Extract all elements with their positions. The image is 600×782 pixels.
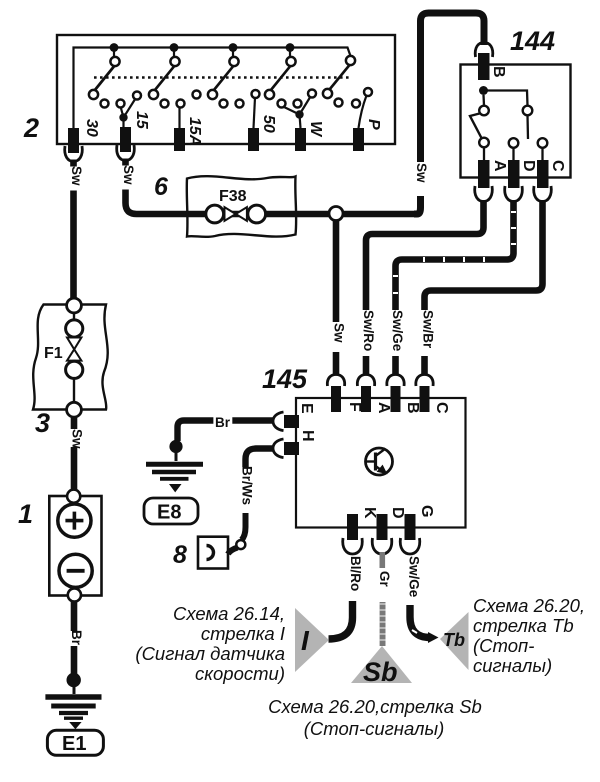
svg-text:I: I: [301, 625, 310, 656]
svg-text:скорости): скорости): [195, 663, 285, 684]
ignition switch box 2: [57, 35, 395, 144]
terminal C stub 144: [537, 160, 549, 188]
wire riser top loop to 144 B: [421, 13, 485, 162]
wire battery down: [71, 601, 78, 631]
relay box 144: [461, 65, 571, 178]
svg-text:Sw/Ro: Sw/Ro: [361, 310, 376, 351]
svg-text:144: 144: [510, 26, 555, 56]
transistor symbol in 145: [366, 448, 393, 475]
svg-text:30: 30: [83, 119, 100, 137]
svg-text:A: A: [491, 160, 508, 172]
144 switch lever: [470, 114, 482, 140]
svg-text:F1: F1: [44, 345, 63, 362]
svg-text:P: P: [365, 119, 382, 130]
connector above 145F: [327, 375, 344, 387]
grey wire segment upper: [380, 552, 386, 568]
svg-text:A: A: [375, 402, 392, 414]
svg-text:(Стоп-: (Стоп-: [473, 635, 534, 656]
wire node to connector 8: [228, 548, 238, 555]
connector above 145A: [357, 375, 374, 387]
svg-text:Sw: Sw: [69, 166, 84, 186]
connector arc in box 8: [207, 546, 214, 560]
wire dot to ground: [73, 680, 76, 694]
svg-text:E1: E1: [62, 733, 86, 755]
ground box E8: [144, 498, 198, 524]
svg-text:Sw/Ge: Sw/Ge: [390, 310, 405, 352]
ground junction dot E8: [169, 440, 182, 453]
switch section 4: [265, 50, 316, 108]
connector above 145C: [416, 375, 433, 387]
svg-text:145: 145: [262, 364, 308, 394]
connector under 145 K: [343, 538, 363, 554]
connector under 145 G: [400, 538, 420, 554]
terminal H stub 145: [284, 442, 299, 455]
144 contact to stub lines: [484, 148, 543, 161]
wire junction to 145F: [333, 220, 340, 322]
svg-text:1: 1: [18, 499, 33, 529]
wire stub above 145A: [363, 356, 370, 374]
svg-text:Sb: Sb: [363, 657, 398, 687]
svg-text:50: 50: [260, 115, 277, 133]
white dash on Sw/Ge bottom: [412, 630, 417, 633]
svg-text:сигналы): сигналы): [473, 655, 552, 676]
bus wire inside switch: [74, 48, 351, 129]
terminal 15A connection: [178, 107, 180, 128]
terminal P stub: [353, 128, 364, 151]
terminal 15 stub: [120, 127, 131, 152]
wire 144D to 145B: [396, 200, 514, 310]
wire dot to ground E8: [175, 447, 178, 461]
wire stub above 145C: [421, 356, 428, 374]
terminal F stub 145: [331, 386, 341, 412]
svg-text:Sw/Ge: Sw/Ge: [407, 556, 422, 598]
wire stub above 145F: [333, 352, 340, 374]
terminal G stub 145: [405, 514, 416, 540]
svg-text:D: D: [389, 507, 406, 519]
svg-text:Схема 26.20,стрелка Sb: Схема 26.20,стрелка Sb: [268, 696, 482, 717]
wire 15 to fuse F38: [126, 159, 415, 215]
svg-text:Схема 26.20,: Схема 26.20,: [473, 595, 585, 616]
text block schema 26.14: [135, 603, 285, 684]
fuse F1 wavy box 3: [33, 305, 108, 410]
connector under terminal 30: [65, 146, 83, 162]
terminal D stub 145: [377, 514, 388, 540]
svg-text:15: 15: [133, 111, 150, 130]
svg-text:(Сигнал датчика: (Сигнал датчика: [135, 643, 285, 664]
svg-text:C: C: [433, 402, 450, 414]
terminal W stub: [295, 128, 306, 151]
wire 144A to 145A: [366, 200, 484, 310]
arrowhead to Tb: [428, 632, 439, 643]
junction node on F38 output: [329, 207, 343, 221]
svg-text:2: 2: [23, 113, 39, 143]
svg-text:K: K: [361, 507, 378, 519]
terminal 15 connection: [121, 99, 136, 129]
ground box E1: [47, 730, 103, 755]
battery top node: [67, 490, 80, 503]
svg-text:F: F: [346, 402, 363, 412]
wire F1 to battery: [71, 447, 78, 491]
text block schema 26.20 Tb: [473, 595, 585, 676]
terminal 50 connection: [254, 98, 256, 129]
terminal 15A stub: [174, 128, 185, 151]
ground symbol E1: [45, 697, 101, 729]
switch section 5: [323, 56, 372, 108]
ground junction dot E1: [67, 673, 81, 687]
terminal A stub 145: [361, 386, 371, 412]
wire BrWs from 145H: [246, 449, 275, 468]
connector box 8: [198, 537, 228, 569]
connector under terminal 15: [117, 145, 135, 161]
white dashes on Sw/Ge wire: [393, 212, 516, 293]
stub below F1: [71, 417, 78, 429]
wire Br from 145E to ground E8: [178, 421, 275, 442]
F1 fuse symbol: [66, 313, 83, 403]
wire BrWs lower: [242, 513, 246, 540]
switch section 3: [208, 50, 260, 108]
svg-text:стрелка I: стрелка I: [201, 623, 285, 644]
F1 top node: [67, 298, 82, 313]
svg-text:H: H: [299, 430, 316, 442]
switch section 2: [149, 50, 201, 108]
wire 30 to fuse F1: [70, 160, 77, 306]
terminal 50 stub: [248, 128, 259, 151]
wire riser to 144 B upper part: [414, 196, 421, 214]
connector above 145B: [387, 375, 404, 387]
terminal K stub 145: [347, 514, 358, 540]
svg-text:E8: E8: [157, 502, 181, 524]
svg-text:Sw: Sw: [121, 165, 136, 185]
connector under 144 D: [505, 186, 523, 202]
control unit box 145: [296, 398, 466, 528]
wire G to arrow Tb: [410, 605, 430, 638]
svg-text:B: B: [490, 66, 507, 78]
svg-text:D: D: [520, 160, 537, 172]
svg-text:B: B: [404, 402, 421, 414]
connector at 144 B: [475, 43, 493, 58]
svg-text:E: E: [298, 403, 315, 414]
connector under 145 D: [372, 538, 392, 554]
svg-text:Sw: Sw: [414, 163, 429, 183]
terminal D stub 144: [508, 160, 520, 188]
battery minus terminal: [59, 554, 92, 587]
terminal E stub 145: [284, 415, 299, 428]
arrow triangle Sb: [351, 646, 412, 683]
bus junction dots: [110, 43, 295, 52]
144 internal junction dot: [479, 86, 488, 95]
svg-text:Gr: Gr: [377, 571, 392, 588]
svg-text:W: W: [307, 121, 324, 138]
switch section 1: [89, 50, 141, 108]
svg-text:Sw/Br: Sw/Br: [421, 310, 436, 349]
svg-text:Tb: Tb: [443, 630, 465, 650]
connector under 144 C: [534, 186, 552, 202]
text block schema 26.20 Sb: [268, 696, 482, 739]
F38 fuse symbol: [225, 207, 247, 221]
terminal B stub 144: [478, 53, 490, 80]
F1 bottom node: [67, 402, 82, 417]
dotted line inside switch: [94, 76, 352, 78]
arrow triangle Tb: [440, 612, 469, 670]
arrow triangle I: [295, 608, 329, 672]
connector under 144 A: [475, 186, 493, 202]
svg-text:Bl/Ro: Bl/Ro: [348, 556, 363, 591]
svg-text:6: 6: [154, 173, 169, 201]
svg-text:Sw: Sw: [70, 429, 85, 449]
ground symbol E8: [146, 464, 203, 491]
wire stub above 145B: [392, 356, 399, 374]
terminal P connection: [359, 96, 367, 129]
terminal A stub 144: [478, 160, 490, 188]
svg-text:стрелка Tb: стрелка Tb: [473, 615, 574, 636]
wire K to arrow I: [329, 601, 353, 639]
svg-text:F38: F38: [219, 188, 247, 205]
battery 1 box: [49, 496, 101, 596]
svg-text:15A: 15A: [186, 117, 203, 146]
battery bottom node: [68, 588, 81, 601]
svg-text:C: C: [549, 160, 566, 172]
svg-text:8: 8: [173, 541, 187, 569]
node circle at 8: [236, 540, 245, 549]
grey wire stripes: [380, 604, 386, 640]
terminal C stub 145: [420, 386, 430, 412]
svg-text:3: 3: [35, 408, 50, 438]
connector at 145 H: [273, 439, 284, 458]
wire 144C to 145C: [425, 200, 543, 310]
svg-text:Схема 26.14,: Схема 26.14,: [173, 603, 285, 624]
fuse F38 wavy box 6: [187, 176, 296, 237]
terminal W connection: [283, 97, 311, 129]
144 contact circles: [479, 106, 547, 148]
terminal 30 stub: [68, 128, 79, 153]
wire to ground dot: [71, 646, 78, 674]
connector at 145 E: [273, 412, 284, 431]
grey wire Gr to Sb: [380, 602, 386, 646]
svg-text:Br: Br: [215, 415, 231, 430]
terminal B stub 145: [391, 386, 401, 412]
svg-text:Br: Br: [69, 630, 84, 646]
svg-text:G: G: [418, 505, 435, 517]
svg-text:Sw: Sw: [332, 323, 347, 343]
svg-text:(Стоп-сигналы): (Стоп-сигналы): [304, 718, 444, 739]
144 internal wiring: [484, 91, 529, 140]
svg-text:Br/Ws: Br/Ws: [240, 466, 255, 505]
battery plus terminal: [58, 504, 91, 537]
